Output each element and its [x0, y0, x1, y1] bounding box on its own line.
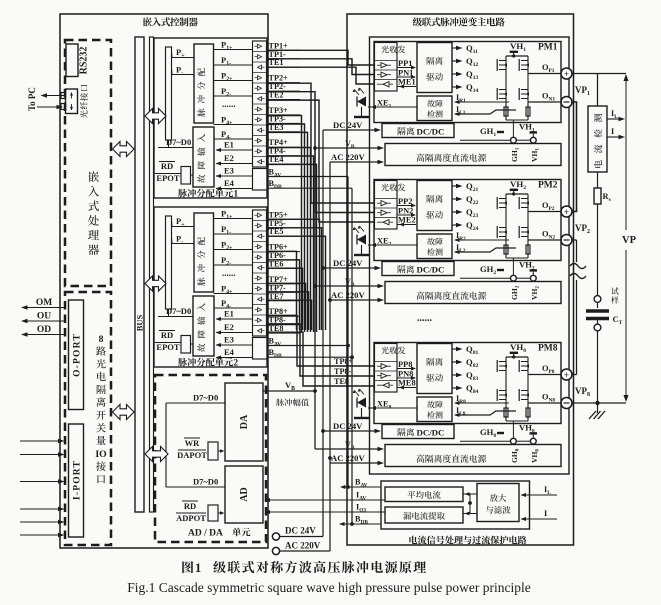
svg-text:To PC: To PC	[27, 87, 37, 111]
svg-text:BUS: BUS	[135, 314, 145, 331]
svg-text:PM8: PM8	[538, 344, 558, 354]
PM8 wire VB	[315, 447, 384, 452]
unit1 label TP3+	[267, 106, 300, 115]
unit1 label TP4-	[267, 147, 300, 156]
wire TP62	[267, 268, 303, 330]
svg-text:RD: RD	[161, 330, 173, 340]
PM1 terminal - circle	[561, 97, 572, 108]
svg-text:DC/DC: DC/DC	[417, 265, 445, 275]
unit2 label P-	[172, 234, 195, 246]
wire detector to Rs	[597, 172, 599, 188]
svg-text:I: I	[544, 509, 547, 518]
PM8 opto cells	[375, 362, 398, 388]
unit2 B output box	[253, 338, 268, 360]
unit1 label P2+	[214, 71, 253, 83]
PM8 bridge top bar	[506, 356, 528, 358]
unit1 label P4-	[214, 129, 253, 141]
rail B_DB	[350, 188, 354, 526]
svg-text:OM: OM	[36, 298, 52, 308]
box 平均电流	[385, 487, 463, 502]
unit2 label B_AV	[269, 337, 282, 348]
PM2 label GH2	[480, 264, 504, 276]
terminal AC220V circle	[272, 547, 330, 554]
unit1 label P-	[172, 65, 195, 77]
VP measure line upper	[624, 74, 629, 230]
svg-text:E4: E4	[224, 347, 235, 357]
wire I-PORT input 6	[20, 533, 65, 538]
title 级联式脉冲逆变主电路	[413, 17, 505, 26]
label 平均电流	[408, 491, 441, 499]
PM8 label DC 24V	[333, 421, 363, 431]
rail AC220V vertical	[328, 162, 332, 551]
wire OM out	[21, 305, 65, 310]
label 脉冲幅值	[276, 399, 309, 407]
svg-text:PP1: PP1	[398, 59, 412, 68]
PM1 opto box 光收发	[375, 43, 398, 92]
box DA	[225, 383, 263, 461]
unit1 label P4+	[214, 115, 253, 127]
PM1 wire Q11	[452, 43, 478, 55]
unit2 label EPOT overline	[155, 342, 181, 352]
unit2 label P2-	[214, 255, 253, 267]
PM1 box 高隔离度直流电源	[385, 144, 561, 166]
PM2 bottom wires	[460, 254, 531, 278]
PM8 sense resistor R	[526, 408, 530, 417]
PM1 label PN1	[398, 69, 417, 80]
box RS232 port	[66, 44, 78, 77]
label D7~D0 upper	[193, 393, 218, 403]
unit1 label E3	[216, 166, 253, 179]
PM1 label PP1	[398, 59, 417, 70]
svg-text:TE6: TE6	[269, 260, 284, 269]
unit1 label TP2+	[267, 74, 300, 83]
wire PM1+ to detector	[572, 74, 626, 107]
wire OD out	[21, 332, 65, 337]
PM2 wire DC24V	[323, 266, 381, 271]
unit1 label RD overline	[159, 161, 175, 171]
PM8 label VH8 top	[510, 342, 527, 359]
label AC 220V (bottom)	[285, 541, 321, 551]
unit2 label TP5+	[267, 210, 300, 219]
unit1 label B_DB	[269, 179, 282, 190]
label DC 24V (bottom)	[285, 526, 316, 536]
PM2 label PN2	[398, 207, 417, 218]
wire I into amp	[521, 509, 558, 521]
wire I-PORT input 2	[20, 452, 65, 457]
PM1 LED indicator	[353, 88, 369, 118]
svg-text:OU: OU	[37, 312, 51, 322]
PM8 wire Q83	[452, 370, 478, 382]
svg-text:I: I	[611, 127, 614, 136]
PM8 wire Q81	[452, 344, 478, 356]
unit1 internal bus bar	[166, 47, 172, 140]
PM8 label PP8	[398, 360, 417, 371]
PM2 box 故障检测	[417, 234, 452, 259]
bus arrow BUS-ADDA	[145, 447, 168, 462]
PM1 label	[538, 43, 558, 53]
unit1 opto buffer cells	[253, 44, 267, 164]
svg-text:D7~D0: D7~D0	[166, 306, 191, 316]
PM8 label GH8	[480, 427, 504, 439]
terminal DC24V circle	[272, 533, 323, 540]
PM2 box 隔离驱动	[417, 181, 452, 231]
PM8 sense resistor L	[504, 408, 508, 417]
wire I-PORT input 4	[20, 507, 65, 512]
PM1 wire O_P tap	[528, 63, 561, 74]
label DA	[239, 414, 250, 429]
wire TP50	[267, 219, 320, 330]
rail VB vertical	[313, 146, 317, 449]
PM1 label DC 24V	[333, 120, 363, 130]
PM8 box 隔离DC/DC	[382, 425, 454, 439]
wire TP41	[267, 156, 314, 332]
svg-text:WR: WR	[185, 438, 201, 448]
PM2 opto cells	[375, 199, 398, 225]
label DAPOT overline	[177, 450, 207, 460]
PM8 box 故障检测	[417, 397, 452, 422]
PM1 label 光收发	[381, 46, 405, 54]
unit1 box 脉冲分配	[194, 44, 214, 123]
dashed box: embedded processor module	[65, 40, 111, 286]
PM8 label	[538, 344, 558, 354]
svg-text:8: 8	[99, 334, 104, 345]
PM8 wire O_P tap	[528, 364, 561, 375]
label WR overline	[184, 438, 200, 448]
svg-text:TE1: TE1	[269, 58, 284, 67]
svg-text:DC 24V: DC 24V	[333, 421, 363, 431]
svg-text:ADPOT: ADPOT	[176, 513, 206, 523]
svg-text:PP8: PP8	[398, 360, 412, 369]
wire OU out	[21, 319, 65, 324]
svg-text:......: ......	[222, 268, 236, 278]
wire TP31	[267, 124, 305, 332]
svg-text:+: +	[564, 207, 569, 217]
PM8 label 高隔离度直流电源	[416, 455, 486, 463]
svg-text:DAPOT: DAPOT	[177, 450, 207, 460]
label I-PORT	[73, 460, 83, 500]
unit1 label 脉冲分配	[197, 68, 205, 117]
PM2 terminal VH circle	[530, 275, 536, 281]
PM8 label ME8	[398, 379, 417, 390]
unit2 dots row	[222, 268, 236, 278]
wire I-PORT input 1	[20, 439, 65, 444]
wire avg-to-amp	[463, 492, 477, 496]
title 嵌入式控制器	[143, 17, 198, 26]
PM1 wire VB	[315, 146, 384, 151]
PM1 label VH1 bottom	[519, 122, 537, 138]
svg-text:E1: E1	[224, 309, 234, 319]
PM2 label DC 24V	[333, 258, 363, 268]
svg-text:E3: E3	[224, 166, 234, 176]
unit2 internal bus bar	[166, 216, 172, 309]
PM2 wire Q21	[452, 181, 478, 193]
PM2 label V_B	[345, 277, 355, 288]
PM1 box 隔离DC/DC	[382, 124, 454, 138]
label OD	[37, 325, 51, 335]
wire B_DB unit1	[267, 187, 352, 189]
PM1 label V_B	[345, 139, 355, 150]
svg-text:+: +	[564, 69, 569, 79]
PM8 label 隔离驱动	[426, 358, 443, 382]
PM1 label AC 220V	[331, 152, 365, 162]
label AD	[239, 487, 250, 501]
PM2 terminal - circle	[561, 235, 572, 246]
PM1 label VH1 top	[510, 41, 527, 58]
label I_O3	[356, 503, 366, 514]
PM8 terminal - circle	[561, 398, 572, 409]
bus arrow processor-BUS	[113, 142, 135, 157]
unit1 label D7~D0	[158, 137, 193, 148]
unit1 EPOT gate box	[181, 167, 193, 185]
unit2 label TP8+	[267, 307, 300, 316]
box PM8 module	[374, 343, 561, 424]
outer box: cascade pulse inverter main circuit	[347, 14, 574, 545]
wire TP80	[267, 315, 374, 366]
label TE8 (at PM8)	[334, 377, 349, 386]
DAPOT gate box	[208, 442, 225, 460]
PM8 wire Q82	[452, 357, 478, 369]
unit1 caption 脉冲分配单元1	[178, 189, 238, 199]
svg-text:ME1: ME1	[398, 78, 416, 87]
svg-text:TE5: TE5	[269, 227, 284, 236]
PM1 sense resistor R	[526, 107, 530, 116]
svg-text:AD: AD	[239, 487, 250, 501]
svg-text:E4: E4	[224, 178, 235, 188]
PM2 wire O_N tap	[528, 230, 561, 241]
wire B_AV bottom	[340, 478, 381, 490]
PM2 label 高隔离度直流电源	[416, 292, 486, 300]
svg-text:......: ......	[222, 99, 236, 109]
wire B_AV unit1	[267, 176, 348, 178]
PM2 label VH2 top	[510, 179, 527, 196]
PM8 bridge rails	[506, 357, 528, 421]
box PM2 module	[374, 180, 561, 261]
box 电流检测 current detector	[588, 106, 607, 172]
PM2 sense resistor R	[526, 245, 530, 254]
svg-text:O-PORT: O-PORT	[73, 333, 83, 377]
svg-text:PM2: PM2	[538, 181, 558, 191]
PM2 label PP2	[398, 197, 417, 208]
wire TP72	[267, 300, 312, 330]
PM1 label 隔离驱动	[426, 57, 443, 81]
unit2 label E3	[216, 335, 253, 348]
label 漏电流提取	[403, 512, 445, 520]
unit2 label TP8-	[267, 316, 300, 325]
unit2 caption 脉冲分配单元2	[178, 358, 238, 368]
unit2 label TE6	[267, 260, 300, 269]
wire PM2- to PM8+ lower	[572, 280, 577, 375]
PM1 mosfet Q12	[519, 59, 529, 71]
svg-text:AD / DA: AD / DA	[188, 529, 223, 539]
unit2 label TP5-	[267, 219, 300, 228]
wire I_L into amp	[521, 485, 558, 497]
wire B_AV unit2	[267, 344, 350, 348]
wire I_L out	[607, 109, 625, 121]
PM1 terminal GH circle	[511, 137, 517, 143]
label ADPOT overline	[176, 513, 206, 523]
PM1 bridge rails	[506, 56, 528, 120]
PM8 wire DC24V	[323, 429, 381, 434]
unit2 box 故障输入	[193, 296, 214, 356]
unit1 label E2	[216, 153, 253, 166]
svg-text:D7~D0: D7~D0	[166, 137, 191, 147]
unit2 opto buffer column	[253, 210, 267, 336]
svg-text:D7~D0: D7~D0	[193, 477, 218, 487]
PM1 label GH1	[480, 126, 504, 138]
PM8 label 光收发	[381, 347, 405, 355]
wire TP40	[267, 148, 311, 333]
fiber inner arrow up	[70, 92, 73, 98]
PM2 wire Q24	[452, 220, 478, 232]
svg-text:AC 220V: AC 220V	[331, 152, 365, 162]
wire TP11	[267, 59, 374, 75]
svg-text:E1: E1	[224, 140, 234, 150]
svg-text:DC/DC: DC/DC	[417, 127, 445, 137]
box current signal processing section	[381, 481, 530, 529]
PM1 rotated label GH1	[510, 147, 520, 162]
PM2 label AC 220V	[331, 290, 365, 300]
wire TP60	[267, 251, 297, 330]
box PM1 module	[374, 42, 561, 123]
svg-text:TP8-: TP8-	[334, 367, 352, 376]
PM2 wire Q22	[452, 194, 478, 206]
label D7~D0 lower	[193, 477, 218, 487]
unit2 label P4+	[214, 284, 253, 296]
wire from PC in	[37, 105, 63, 110]
svg-text:DA: DA	[239, 414, 250, 429]
label 嵌入式处理器 vertical	[88, 171, 99, 255]
label TP8- (at PM8)	[334, 367, 352, 376]
label VP1	[575, 85, 590, 97]
wire TP81	[267, 324, 374, 376]
PM2 label 隔离驱动	[426, 195, 443, 219]
PM1 terminal + circle	[561, 68, 572, 79]
label I_AV	[356, 491, 366, 502]
unit2 label P+	[172, 216, 195, 228]
unit1 label TE3	[267, 123, 300, 132]
PM1 wire DC24V	[323, 128, 381, 133]
wire TP30	[267, 116, 302, 333]
PM8 opto box 光收发	[375, 344, 398, 393]
wire Rs down	[597, 204, 599, 296]
wire TP20	[267, 83, 374, 203]
fiber port stub upper	[61, 93, 66, 99]
svg-text:IO: IO	[95, 449, 107, 460]
PM1 wire XE	[368, 99, 417, 110]
label VP	[622, 235, 637, 246]
wire PM2- to PM8+ upper	[572, 240, 577, 262]
wire bottom node	[572, 401, 626, 405]
PM2 mosfet Q24	[519, 226, 529, 238]
PM2 label	[538, 181, 558, 191]
wire TP70	[267, 283, 306, 330]
dots between PM2 and PM8	[417, 313, 433, 324]
PM1 mosfet Q11	[497, 59, 507, 71]
label OU	[37, 312, 51, 322]
unit1 label P2-	[214, 86, 253, 98]
svg-text:EPOT: EPOT	[156, 342, 179, 352]
caption AD/DA 单元	[188, 528, 250, 539]
PM1 bridge top bar	[506, 55, 528, 57]
PM8 mosfet Q84	[519, 389, 529, 401]
fiber inner arrow down	[70, 104, 73, 110]
unit2 label TE8	[267, 324, 300, 333]
PM2 label 故障检测	[427, 238, 442, 256]
PM1 mosfet Q13	[497, 88, 507, 100]
wire VB from DA	[263, 390, 315, 392]
svg-text:Fig.1 Cascade symmetric squa: Fig.1 Cascade symmetric square wave high…	[127, 580, 530, 595]
svg-text:RD: RD	[161, 161, 173, 171]
wire TP12	[267, 67, 374, 84]
svg-text:......: ......	[417, 313, 433, 324]
svg-text:AC 220V: AC 220V	[331, 290, 365, 300]
PM2 wire Q23	[452, 207, 478, 219]
wire sample to ground	[597, 331, 599, 403]
PM1 rotated label VH1	[530, 148, 540, 162]
wire TP52	[267, 236, 326, 330]
svg-text:DC 24V: DC 24V	[333, 258, 363, 268]
PM2 LED indicator	[353, 226, 369, 256]
PM2 opto box 光收发	[375, 181, 398, 230]
box fiber-optic interface 光纤接口	[66, 89, 78, 114]
caption 电流信号处理与过流保护电路	[409, 536, 526, 545]
label O-PORT	[73, 333, 83, 377]
svg-text:DC 24V: DC 24V	[333, 120, 363, 130]
svg-text:D7~D0: D7~D0	[193, 393, 218, 403]
PM8 terminal + circle	[561, 369, 572, 380]
PM2 rotated label GH2	[510, 285, 520, 300]
unit1 label EPOT overline	[155, 173, 181, 183]
wire B_DB bottom	[339, 515, 381, 527]
svg-text:+: +	[564, 370, 569, 380]
unit2 label 脉冲分配	[197, 237, 205, 286]
label TP8+ (at PM8)	[332, 357, 354, 366]
PM2 wire XE	[368, 237, 417, 248]
svg-text:E2: E2	[224, 153, 234, 163]
PM8 terminal VH circle	[530, 438, 536, 444]
PM2 mosfet Q22	[519, 197, 529, 209]
wire TP32	[267, 132, 308, 332]
PM1 wire I_L	[454, 105, 516, 116]
dashed box: AD/DA unit	[155, 375, 266, 542]
unit1 label 故障输入	[197, 134, 205, 183]
PM1 box 隔离驱动	[417, 43, 452, 93]
ground symbol	[589, 403, 605, 419]
wire I-PORT input 3	[20, 479, 65, 484]
dashed box: 8ch opto-isolated IO ports	[65, 292, 111, 545]
unit2 label TP7-	[267, 283, 300, 292]
unit2 label D7~D0	[158, 306, 193, 317]
svg-text:RD: RD	[184, 501, 196, 511]
PM8 bottom wires	[460, 417, 531, 441]
PM2 label 光收发	[381, 184, 405, 192]
unit2 box 脉冲分配	[194, 213, 214, 292]
wire I_O3 to AD	[265, 510, 386, 514]
unit2 label 故障输入	[197, 303, 205, 352]
PM2 wire I_L	[454, 243, 516, 254]
unit1 label P+	[172, 47, 195, 59]
ADDA bracket bus	[166, 403, 225, 487]
unit1 label TP3-	[267, 114, 300, 123]
bus arrow BUS-unit1	[145, 109, 166, 124]
PM8 rotated label GH8	[510, 448, 520, 463]
VP measure line lower	[624, 250, 629, 402]
unit1 label P1+	[214, 40, 253, 52]
svg-text:DC/DC: DC/DC	[417, 428, 445, 438]
PM8 box 隔离驱动	[417, 344, 452, 394]
svg-text:2: 2	[234, 358, 239, 368]
PM2 mosfet Q23	[497, 226, 507, 238]
